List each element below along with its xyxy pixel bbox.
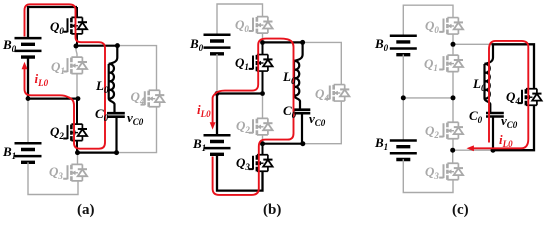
svg-text:(b): (b): [263, 202, 281, 218]
wire: right loop gray top: [117, 46, 156, 91]
wire: mid rail black: [28, 97, 78, 99]
transistor Q2 (gray) (c): [439, 122, 463, 139]
wire: L0 to C0 (c): [485, 99, 491, 113]
wire: top rail black from left rail to Q0 drain: [28, 7, 77, 38]
wire: Q0 source to node A: [76, 34, 78, 46]
node: Q2/Q3 junction dot (c): [450, 148, 455, 153]
node: Q0/Q1 junction dot (c): [451, 42, 456, 47]
wire: mid rail gray (c): [403, 97, 453, 99]
red current path (c): [474, 41, 529, 148]
transistor Q0 (gray) (c): [439, 18, 463, 35]
wire: Q2 source gray (c): [452, 139, 454, 150]
wire: LC top black (c): [492, 44, 535, 88]
wire: bottom node to LC bottom (black): [78, 152, 118, 154]
wire: Q1 source gray to mid rail: [76, 74, 78, 99]
node: LC bottom dot (c): [491, 148, 496, 153]
wire: Q0 source gray to node (c): [452, 34, 454, 44]
node A: Q0/Q1 junction dot: [74, 44, 79, 49]
wire: Q1 source gray to mid (c): [452, 72, 454, 98]
wire: Q0 source gray to node: [262, 33, 264, 42]
wire: Q1 source black to mid: [262, 71, 264, 93]
node: LC bottom dot: [114, 150, 119, 155]
transistor Q4 (gray) (b): [326, 85, 350, 102]
wire: Q2 drain black from mid rail: [76, 99, 78, 124]
node: Q0/Q1 junction dot (b): [260, 40, 265, 45]
wire: left rail B0 bottom to mid rail (black): [27, 57, 29, 98]
node: Q2/Q3 junction dot (b): [260, 141, 265, 146]
capacitor C0 (c): [486, 113, 504, 117]
transistor Q1 (gray) (c): [439, 55, 463, 72]
wire: node to LC top black (b): [263, 41, 303, 43]
svg-text:(a): (a): [77, 202, 95, 218]
wire: top rail gray (c): [403, 5, 453, 36]
red current path (a): [25, 4, 106, 148]
wire: mid rail black: [217, 92, 263, 94]
node: mid-right junction dot: [76, 96, 81, 101]
wire: Q2 drain gray (c): [452, 98, 454, 122]
battery B1 (b): [204, 135, 231, 154]
node: LC top dot (b): [300, 40, 305, 45]
wire: Q2 source black to bottom node: [76, 141, 78, 153]
wire: right loop gray top (b): [303, 42, 342, 84]
wire: bottom node to LC bottom black (b): [263, 143, 304, 145]
wire: L0 to C0 (b): [294, 96, 300, 110]
wire: Q3 drain gray (c): [452, 150, 454, 163]
inductor L0 coil: [109, 64, 114, 99]
battery B0 (c): [390, 36, 417, 55]
wire: node to right loop gray (c): [453, 43, 492, 45]
node: mid-right dot (c): [451, 95, 456, 100]
wire: left rail black B1 to bottom, bottom rail black to Q3: [217, 154, 263, 191]
transistor Q3 (gray): [63, 164, 87, 181]
wire: right loop bottom black (c): [493, 106, 534, 151]
wire: left rail gray B0 to B1 through mid (c): [402, 54, 404, 140]
transistor Q0 (gray) (b): [249, 17, 273, 34]
capacitor C0 (b): [293, 110, 311, 114]
battery B1: [15, 143, 42, 162]
red arrow i_L0 (a): [22, 62, 28, 69]
inductor L0 top wire (c): [485, 44, 494, 64]
battery B0 (b): [204, 35, 231, 54]
red current path (b): [213, 39, 294, 195]
wire: L0 to C0: [109, 99, 115, 113]
wire: top rail gray: [217, 4, 263, 35]
transistor Q2 (black): [63, 124, 87, 141]
wire: Q3 drain black: [262, 144, 264, 155]
wire: Q2 source gray: [262, 135, 264, 144]
wire: left rail black mid to B1: [216, 94, 218, 137]
transistor Q1 (gray): [63, 57, 87, 74]
wire: right loop gray bottom: [117, 107, 157, 153]
node: mid-right dot (b): [260, 91, 265, 96]
wire: Q1 drain gray: [76, 46, 77, 57]
inductor L0 coil (c): [485, 64, 490, 99]
capacitor C0: [107, 113, 125, 117]
node: LC bottom dot (b): [300, 141, 305, 146]
wire: left rail gray B0 to mid: [216, 54, 218, 94]
wire: C0 to bottom node (b): [301, 113, 303, 144]
wire: Q3 drain gray: [77, 153, 79, 165]
wire: Q1 drain black: [262, 43, 264, 55]
node: mid-left dot (c): [401, 95, 406, 100]
inductor L0 coil (b): [294, 61, 299, 96]
node: Q2/Q3 bottom junction dot: [75, 150, 80, 155]
transistor Q0 (black): [63, 17, 87, 34]
wire: C0 to bottom node: [115, 117, 117, 153]
red arrow i_L0 (b): [210, 122, 216, 129]
wire: bottom node to LC bottom gray (c): [453, 149, 493, 151]
inductor L0 top wire (b): [294, 42, 303, 61]
red arrow i_L0 (c): [467, 145, 474, 151]
wire: Q2 drain gray: [262, 94, 264, 119]
transistor Q1 (black) (b): [249, 55, 273, 72]
svg-text:(c): (c): [452, 202, 469, 218]
wire: Q1 drain gray (c): [452, 44, 454, 55]
transistor Q2 (gray) (b): [249, 118, 273, 135]
transistor Q3 (gray) (c): [439, 163, 463, 180]
battery B1 (c): [390, 141, 417, 160]
transistor Q3 (black) (b): [249, 155, 273, 172]
wire: C0 to bottom node (c): [492, 117, 494, 151]
wire: right loop gray bottom (b): [303, 101, 342, 143]
wire: left rail gray B1 to bottom rail to Q3 (c): [403, 159, 453, 192]
wire: Q0 drain stub: [76, 7, 78, 17]
node: mid-left dot (b): [215, 91, 220, 96]
wire: left rail gray B1 to bottom rail, bottom rail gray to Q3 source: [28, 162, 78, 194]
node: LC top dot: [115, 43, 120, 48]
inductor L0 top wire: [109, 46, 118, 64]
transistor Q4 (gray): [141, 90, 165, 107]
wire: left rail gray mid to B1: [27, 99, 29, 144]
transistor Q4 (black) (c): [518, 89, 542, 106]
battery B0: [15, 38, 42, 57]
node: mid-left junction dot: [26, 96, 31, 101]
wire: node A to LC top (black): [76, 45, 118, 47]
